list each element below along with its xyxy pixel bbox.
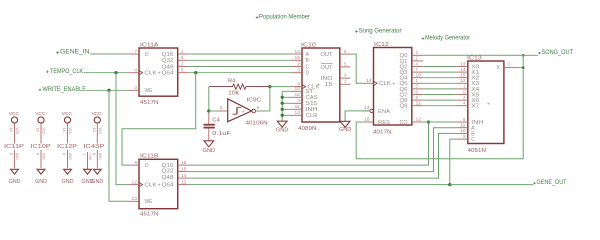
wire WRITE_ENABLE to IC11A pin WE <box>86 89 128 91</box>
net label GENE_IN <box>56 50 89 56</box>
svg-text:IC13: IC13 <box>467 55 482 61</box>
svg-text:8: 8 <box>62 153 66 155</box>
IC IC10 4089N binary rate multiplier <box>291 42 351 132</box>
ground symbol IC10P <box>35 169 47 185</box>
wire GENE_IN to IC11A pin D <box>90 53 128 55</box>
svg-text:Q64: Q64 <box>162 71 174 77</box>
op-amp IC9C 40106N schmitt inverter <box>218 97 268 126</box>
wire GENE_OUT <box>450 184 533 186</box>
wire CO to INH <box>423 121 456 123</box>
net label WRITE_ENABLE <box>39 87 86 93</box>
svg-text:12: 12 <box>460 78 466 83</box>
svg-text:4017N: 4017N <box>373 130 392 136</box>
svg-text:6: 6 <box>344 49 347 54</box>
wire Q16A to IC10 A <box>188 53 291 55</box>
wire Q64B to IC13 C and GENE_OUT <box>188 184 449 186</box>
wire C4 to ground <box>208 129 210 141</box>
wire input node to IC9C <box>209 110 218 112</box>
junction X SONG_OUT <box>522 66 525 69</box>
ground symbol IC43P <box>91 169 103 185</box>
svg-text:VCC: VCC <box>62 111 73 117</box>
svg-text:7: 7 <box>135 49 138 54</box>
svg-text:12: 12 <box>416 116 422 121</box>
wire clock net to IC10 CLK <box>270 86 291 88</box>
svg-text:1: 1 <box>181 49 184 54</box>
svg-text:11: 11 <box>416 101 422 106</box>
svg-text:Melody Generator: Melody Generator <box>425 35 470 41</box>
svg-text:Q48: Q48 <box>162 175 174 181</box>
svg-text:VCC: VCC <box>35 111 46 117</box>
svg-text:C4: C4 <box>212 118 219 124</box>
svg-text:C: C <box>471 137 475 143</box>
power gate IC10P VCC symbol <box>35 111 46 123</box>
IC IC11A 4517N dual 64-stage shift register half A <box>128 42 188 106</box>
title Song Generator <box>355 28 401 34</box>
power gate IC12P GND pin <box>62 150 72 169</box>
svg-text:RES: RES <box>378 120 391 126</box>
svg-text:4517N: 4517N <box>140 100 159 106</box>
svg-text:15: 15 <box>325 82 333 88</box>
wire TEMPO_CLK to IC11A pin CLK <box>84 72 129 74</box>
svg-text:Q9: Q9 <box>400 104 408 110</box>
wire Q16B to INH/CO net <box>188 122 428 165</box>
svg-text:2: 2 <box>298 61 301 66</box>
svg-text:VCC: VCC <box>68 128 72 135</box>
svg-text:4089N: 4089N <box>298 126 317 132</box>
wire Q2..Q9 to X0..X7 <box>423 66 456 68</box>
wire SONG_OUT <box>523 54 538 56</box>
svg-text:2: 2 <box>181 61 184 66</box>
wire Q32B to IC13 A <box>188 128 456 172</box>
svg-text:R4: R4 <box>228 79 235 85</box>
junction oscillator input <box>207 109 210 112</box>
svg-text:GENE_OUT: GENE_OUT <box>537 180 567 186</box>
svg-text:D: D <box>145 52 149 58</box>
power gate IC12P VCC pin <box>62 123 72 143</box>
svg-text:11: 11 <box>181 179 187 184</box>
svg-text:IC11P: IC11P <box>4 144 25 150</box>
svg-text:GND: GND <box>82 179 94 185</box>
junction SONG_OUT RES <box>522 54 525 57</box>
svg-text:6: 6 <box>181 55 184 60</box>
wire IC12 RES to SONG_OUT net <box>356 55 523 159</box>
svg-text:5: 5 <box>181 68 184 73</box>
power gate IC10P GND pin <box>36 150 46 169</box>
svg-text:D: D <box>145 163 149 169</box>
svg-text:VCC: VCC <box>15 128 19 135</box>
svg-text:VCC: VCC <box>92 111 103 117</box>
svg-text:2: 2 <box>463 95 466 100</box>
svg-text:12: 12 <box>132 179 138 184</box>
svg-text:+: + <box>158 183 161 189</box>
svg-text:11: 11 <box>295 104 301 109</box>
ground symbol IC11P <box>9 169 21 185</box>
svg-text:5: 5 <box>416 84 419 89</box>
svg-text:Q16: Q16 <box>162 52 174 58</box>
svg-text:A: A <box>306 52 310 58</box>
wire Q32A to IC10 B <box>188 59 291 61</box>
svg-text:1: 1 <box>344 79 347 84</box>
svg-text:5: 5 <box>220 105 223 110</box>
svg-text:IC10: IC10 <box>301 42 316 48</box>
svg-text:C: C <box>306 64 310 70</box>
svg-text:GND: GND <box>9 179 21 185</box>
svg-text:Population Member: Population Member <box>259 14 310 20</box>
svg-text:GND: GND <box>35 179 47 185</box>
title Melody Generator <box>422 35 470 41</box>
junctions control tie <box>281 96 284 99</box>
power gate IC11P VCC pin <box>9 123 19 143</box>
svg-text:GND: GND <box>98 153 102 160</box>
svg-text:WRITE_ENABLE: WRITE_ENABLE <box>43 87 87 93</box>
svg-text:4: 4 <box>463 101 466 106</box>
junction Q64B GENE_OUT <box>448 183 451 186</box>
svg-text:14: 14 <box>181 173 187 178</box>
svg-text:3: 3 <box>298 68 301 73</box>
svg-text:+: + <box>487 101 490 107</box>
svg-text:10: 10 <box>181 166 187 171</box>
svg-text:10: 10 <box>416 73 422 78</box>
wire TEMPO_CLK down to IC11B CLK <box>116 73 128 185</box>
svg-text:CLK: CLK <box>145 183 158 189</box>
svg-text:INO: INO <box>321 76 333 82</box>
svg-text:11: 11 <box>460 123 466 128</box>
wire IC9C output feedback to clock net <box>256 87 270 111</box>
power gate IC43P VCC pin <box>92 123 102 143</box>
ground symbol IC43P second <box>82 169 94 185</box>
svg-text:4: 4 <box>135 68 138 73</box>
junction CO INH Q16B <box>427 120 430 123</box>
svg-text:GND: GND <box>62 179 74 185</box>
power gate IC43P VCC symbol <box>92 111 103 123</box>
svg-text:0.1uF: 0.1uF <box>212 131 231 137</box>
wire Q64A to IC10 D <box>188 72 291 74</box>
net label SONG_OUT <box>538 50 573 56</box>
svg-text:7: 7 <box>82 154 86 156</box>
svg-text:14: 14 <box>366 78 372 83</box>
svg-text:GND: GND <box>339 127 352 133</box>
svg-text:IC11B: IC11B <box>140 154 159 160</box>
power gate IC11P VCC symbol <box>9 111 20 123</box>
svg-text:10: 10 <box>460 128 466 133</box>
svg-text:B: B <box>306 58 310 64</box>
ground below control tie <box>276 121 289 133</box>
svg-text:D: D <box>306 71 310 77</box>
svg-text:Q32: Q32 <box>162 169 174 175</box>
svg-text:IC11A: IC11A <box>140 42 159 48</box>
junction clock net <box>268 85 271 88</box>
svg-text:8: 8 <box>36 153 40 155</box>
svg-text:GND: GND <box>68 153 72 160</box>
svg-text:40106N: 40106N <box>246 120 268 126</box>
svg-text:9: 9 <box>135 160 138 165</box>
svg-text:OUT: OUT <box>321 65 333 71</box>
net label TEMPO_CLK <box>46 69 83 75</box>
svg-text:4517N: 4517N <box>140 212 159 217</box>
ground symbol IC12P <box>62 169 74 185</box>
svg-text:3: 3 <box>508 61 511 66</box>
svg-text:SONG_OUT: SONG_OUT <box>542 50 574 56</box>
svg-text:4: 4 <box>416 61 419 66</box>
svg-text:Q48: Q48 <box>162 64 174 70</box>
svg-text:GND: GND <box>15 153 19 160</box>
svg-text:IC12: IC12 <box>374 42 389 48</box>
svg-text:CLR: CLR <box>306 113 318 119</box>
svg-text:13: 13 <box>460 61 466 66</box>
svg-text:IC9C: IC9C <box>247 97 262 103</box>
svg-text:5: 5 <box>344 62 347 67</box>
wire X output up to SONG_OUT <box>515 67 523 69</box>
ground below C4 <box>203 141 216 154</box>
svg-text:VCC: VCC <box>98 128 102 135</box>
junction WRITE_ENABLE <box>107 89 110 92</box>
svg-text:9: 9 <box>463 134 466 139</box>
svg-text:VCC: VCC <box>42 128 46 135</box>
svg-text:7: 7 <box>416 67 419 72</box>
power gate IC43P second GND pin <box>82 152 92 169</box>
svg-text:13: 13 <box>132 196 138 201</box>
svg-text:16: 16 <box>92 128 96 133</box>
svg-text:WE: WE <box>145 88 154 94</box>
resistor R4 10k <box>209 79 270 97</box>
svg-text:6: 6 <box>463 117 466 122</box>
power gate IC11P GND pin <box>9 150 19 169</box>
svg-text:12: 12 <box>295 92 301 97</box>
svg-text:Song Generator: Song Generator <box>359 28 402 34</box>
wire IC10 OUT to IC12 CLK <box>351 54 363 83</box>
svg-text:10: 10 <box>295 86 301 91</box>
wire R4 left to input node <box>208 87 210 111</box>
wire Q64A cascade to IC11B D <box>122 73 196 165</box>
title Population Member <box>256 14 310 20</box>
power gate IC10P VCC pin <box>36 123 46 143</box>
svg-text:Q32: Q32 <box>162 58 174 64</box>
svg-text:IC10P: IC10P <box>31 144 52 150</box>
IC IC13 4051N analog multiplexer <box>456 55 515 154</box>
svg-text:2: 2 <box>416 56 419 61</box>
wire Q48A to IC10 C <box>188 66 291 68</box>
svg-text:+: + <box>392 81 395 87</box>
svg-text:X: X <box>496 65 500 71</box>
svg-text:13: 13 <box>295 110 301 115</box>
svg-text:IC12P: IC12P <box>57 144 78 150</box>
svg-text:4: 4 <box>298 98 301 103</box>
svg-text:8: 8 <box>9 153 13 155</box>
svg-text:10k: 10k <box>228 91 239 97</box>
svg-text:4051N: 4051N <box>468 148 487 154</box>
junction TEMPO_CLK <box>114 71 117 74</box>
svg-text:15: 15 <box>460 73 466 78</box>
svg-text:1: 1 <box>416 78 419 83</box>
svg-text:CO: CO <box>400 120 408 126</box>
svg-text:14: 14 <box>460 67 466 72</box>
wire IC12 ENA to ground <box>345 111 370 121</box>
svg-text:3: 3 <box>416 50 419 55</box>
power gate IC12P VCC symbol <box>62 111 73 123</box>
svg-text:16: 16 <box>36 128 40 133</box>
ground below ENA <box>339 121 352 133</box>
svg-text:TEMPO_CLK: TEMPO_CLK <box>50 69 83 75</box>
svg-text:CLK: CLK <box>379 81 392 87</box>
svg-text:+: + <box>242 109 245 114</box>
junction Q64A cascade <box>194 71 197 74</box>
svg-text:+: + <box>317 82 320 88</box>
svg-text:VCC: VCC <box>9 111 20 117</box>
svg-text:14: 14 <box>295 49 301 54</box>
svg-text:15: 15 <box>295 55 301 60</box>
svg-text:6: 6 <box>257 105 260 110</box>
IC IC12 4017N decade counter <box>362 42 423 136</box>
svg-text:VSS: VSS <box>88 154 92 161</box>
svg-text:7: 7 <box>344 73 347 78</box>
svg-text:X7: X7 <box>471 104 479 110</box>
capacitor C4 0.1uF <box>204 112 232 138</box>
svg-text:Q64: Q64 <box>162 183 174 189</box>
svg-text:15: 15 <box>364 116 370 121</box>
svg-text:6: 6 <box>416 89 419 94</box>
svg-text:CLK: CLK <box>145 71 158 77</box>
svg-text:+: + <box>158 71 161 77</box>
power gate IC43P GND pin <box>92 150 102 169</box>
svg-text:3: 3 <box>135 85 138 90</box>
svg-text:5: 5 <box>463 89 466 94</box>
wire WRITE_ENABLE down to IC11B WE <box>109 90 128 201</box>
wire Q48B to IC13 B <box>188 133 456 178</box>
svg-text:1: 1 <box>463 84 466 89</box>
wire IC10 control pins tie <box>281 91 283 121</box>
svg-text:GND: GND <box>42 153 46 160</box>
net label GENE_OUT <box>533 180 567 186</box>
svg-text:GENE_IN: GENE_IN <box>60 50 90 56</box>
svg-text:GND: GND <box>203 148 216 154</box>
svg-text:15: 15 <box>181 160 187 165</box>
svg-text:IC43P: IC43P <box>83 144 105 150</box>
svg-text:9: 9 <box>416 95 419 100</box>
svg-text:ENA: ENA <box>378 109 391 115</box>
svg-text:WE: WE <box>145 199 154 205</box>
wire Q0 to X output net <box>423 54 523 56</box>
IC IC11B 4517N dual 64-stage shift register half B <box>128 154 188 218</box>
svg-text:OUT: OUT <box>321 52 333 58</box>
svg-text:13: 13 <box>364 105 370 110</box>
svg-text:16: 16 <box>9 128 13 133</box>
svg-text:16: 16 <box>62 128 66 133</box>
svg-text:GND: GND <box>276 128 289 134</box>
